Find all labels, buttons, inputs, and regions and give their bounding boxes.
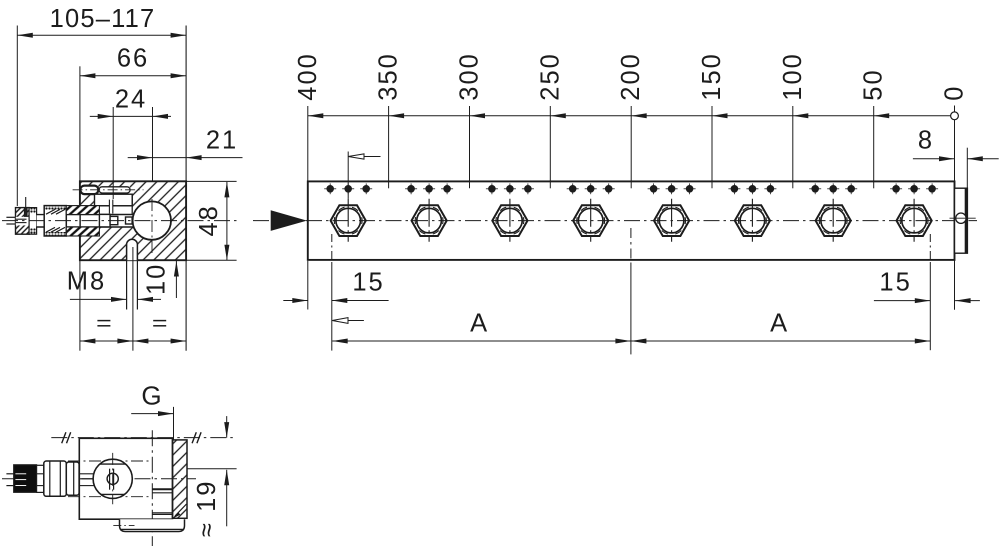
dimension 48 [226,182,228,260]
rows of small outlet dots on bar top face [324,188,336,190]
counterbore right wall [131,194,133,214]
G leader arrow [131,413,173,415]
G port vertical centerline [151,430,153,546]
parallelism marks right [192,432,196,443]
hex outlet fitting 5 [654,199,689,242]
top view main axis [2,478,196,480]
lower bore centerline [68,496,149,498]
fitting tube [37,215,80,227]
black knurled cap [14,465,37,493]
inlet flow arrow (solid triangle) [271,210,307,231]
right 15 position line [929,234,931,262]
leader to first outlet position [347,152,349,199]
bar right edge extension up (station 0) [954,106,956,182]
top view block outline [79,438,172,519]
hex outlet fitting 8 [897,199,932,242]
fitting tube stub [6,216,15,218]
ext line 105-117 left [16,26,18,207]
main bore upper wall [80,214,134,216]
left 15 position line [331,234,333,262]
dimension 21 [128,157,243,159]
dimension 10 [175,261,177,298]
svg-text:100: 100 [779,52,807,101]
bar left edge extension up (station 400) [307,106,309,181]
svg-text:A: A [470,310,489,338]
section block outline [80,181,186,260]
svg-text:300: 300 [456,52,484,101]
station extension lines 350..50 [388,106,390,188]
svg-text:8: 8 [918,126,934,154]
tab centerline stub [113,524,134,526]
bottom outlet hole M8 [127,239,138,260]
screw slot [109,469,111,490]
G port step lines [152,488,172,490]
equal-spacing symbols [97,320,110,322]
threaded section [66,206,99,215]
left view main axis [2,220,238,222]
rail strip (hatched) [173,440,188,518]
mounting plane centerline [51,437,236,439]
svg-text:48: 48 [195,204,223,236]
svg-text:15: 15 [879,269,911,297]
hex nut (top view) [44,461,67,496]
tube stub left [6,473,13,475]
top port slot (thick stadium) [80,186,98,195]
hex outlet fitting 1 [331,199,366,242]
top port axis [73,189,144,191]
dimension 8 lines and arrows [913,158,955,160]
distributor bar body outline [308,181,955,260]
dimension 15 right lines [874,300,930,302]
hex outlet fitting 6 [735,199,770,242]
svg-text:21: 21 [206,127,238,155]
top port slot 2 [99,187,130,193]
bar right edge extension down [954,261,956,310]
section block hatching [80,181,186,260]
cap neck [37,465,44,492]
knurled cap [29,208,36,235]
ext line 66 left [79,66,81,181]
top port cavity [95,194,133,206]
boss circle [93,459,132,498]
main bore lower wall [80,226,134,228]
parallelism marks left [62,432,66,443]
main axis centerline of distributor bar [253,220,977,222]
bore chord lines [100,463,126,465]
end plate [955,188,968,253]
fitting tip [126,217,133,224]
svg-text:24: 24 [115,86,147,114]
dimension 105-117 [17,34,186,36]
svg-text:M8: M8 [67,268,106,296]
dimension M8 [70,298,127,300]
boss vertical centerline [112,453,114,504]
upper bore centerline [68,460,149,462]
ext line outlet centre down [132,247,134,351]
svg-text:15: 15 [352,269,384,297]
union nut [44,206,66,236]
fitting nose step [110,216,118,224]
main junction bore (circle) [133,201,171,239]
ext line 24 left [112,107,114,199]
dimension approx19 [226,416,228,438]
svg-text:≈ 19: ≈ 19 [193,480,221,537]
fitting end plug (hatched) [16,208,30,235]
chain dimension line [308,115,951,117]
dimension 24 [90,115,171,117]
svg-text:10: 10 [142,263,170,295]
long right extension line [185,26,187,351]
dimension 15 left lines [283,300,308,302]
chain dimension arrows [308,113,324,118]
hex outlet fitting 3 [492,199,527,242]
hex outlet fitting 2 [412,199,447,242]
fitting nose cylinder [99,214,110,227]
svg-text:A: A [770,310,789,338]
threaded hole lines in block [80,473,94,475]
svg-text:400: 400 [294,52,322,101]
open arrow marker [332,320,364,322]
hex outlet fitting 4 [573,199,608,242]
centre extension line for A dimensions [630,228,632,264]
ext line left edge down [79,260,81,351]
svg-text:150: 150 [698,52,726,101]
equal spacing dimension line [80,340,186,342]
zero reference circle [951,112,959,120]
ext line 24 right [152,107,154,181]
svg-text:105–117: 105–117 [50,5,156,33]
svg-text:G: G [141,381,163,411]
bleed stem [24,208,27,217]
bottom outlet tube below block [126,260,128,309]
svg-text:250: 250 [536,52,564,101]
svg-text:66: 66 [117,45,149,73]
dimension A left [332,340,631,342]
ext lines 48 [187,180,237,182]
strip corner mark [172,512,181,519]
G leader extension line [173,407,175,440]
dimension 8 extension line [966,148,968,188]
mounting tab [120,519,185,531]
union piece [66,462,79,495]
svg-text:50: 50 [860,68,888,100]
svg-text:200: 200 [617,52,645,101]
dimension 66 [80,75,186,77]
ext line 19 top [187,468,237,470]
screw head circle [107,473,118,484]
bar left edge extension down [307,261,309,310]
top port cavity step [88,205,132,207]
svg-text:350: 350 [375,52,403,101]
junction bore vertical centerline [151,199,153,254]
svg-text:0: 0 [941,85,969,101]
top port drill hole [109,200,112,214]
hex outlet fitting 7 [816,199,851,242]
end plate hole [956,213,966,223]
dimension A right [631,340,930,342]
